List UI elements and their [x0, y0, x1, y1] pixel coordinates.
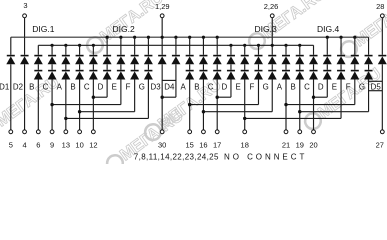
svg-text:D: D [318, 82, 324, 91]
svg-text:21: 21 [282, 140, 290, 149]
svg-text:10: 10 [75, 140, 83, 149]
svg-text:D2: D2 [13, 82, 23, 91]
svg-text:A: A [180, 82, 186, 91]
svg-text:4: 4 [22, 140, 26, 149]
svg-text:B: B [194, 82, 199, 91]
svg-text:F: F [126, 82, 131, 91]
svg-text:17: 17 [213, 140, 221, 149]
svg-text:19: 19 [296, 140, 304, 149]
svg-text:C: C [304, 82, 310, 91]
svg-text:DIG.2: DIG.2 [113, 24, 135, 34]
svg-text:27: 27 [376, 140, 384, 149]
svg-text:30: 30 [158, 140, 166, 149]
svg-text:E: E [332, 82, 337, 91]
svg-text:9: 9 [50, 140, 54, 149]
svg-text:28: 28 [376, 2, 384, 11]
svg-text:12: 12 [89, 140, 97, 149]
svg-text:DIG.3: DIG.3 [255, 24, 277, 34]
svg-text:D1: D1 [0, 82, 9, 91]
svg-text:5: 5 [9, 140, 13, 149]
svg-text:E: E [235, 82, 240, 91]
svg-text:C: C [43, 82, 49, 91]
svg-text:E: E [112, 82, 117, 91]
svg-text:3: 3 [23, 1, 27, 10]
svg-text:C: C [208, 82, 214, 91]
svg-text:D5: D5 [371, 82, 382, 91]
svg-text:D3: D3 [151, 82, 162, 91]
svg-text:B: B [291, 82, 296, 91]
svg-text:C: C [84, 82, 90, 91]
svg-text:F: F [249, 82, 254, 91]
svg-text:D: D [222, 82, 228, 91]
svg-text:G: G [263, 82, 269, 91]
svg-text:1,29: 1,29 [155, 2, 170, 11]
svg-text:D4: D4 [164, 82, 175, 91]
svg-text:B: B [29, 82, 34, 91]
svg-text:A: A [277, 82, 283, 91]
svg-text:6: 6 [36, 140, 40, 149]
svg-text:G: G [359, 82, 365, 91]
svg-text:G: G [139, 82, 145, 91]
svg-text:B: B [70, 82, 75, 91]
svg-text:F: F [346, 82, 351, 91]
svg-text:DIG.1: DIG.1 [32, 24, 54, 34]
svg-text:2,26: 2,26 [264, 2, 279, 11]
svg-text:20: 20 [309, 140, 317, 149]
svg-text:7,8,11,14,22,23,24,25 NO CONNE: 7,8,11,14,22,23,24,25 NO CONNECT [134, 152, 307, 161]
svg-text:16: 16 [199, 140, 207, 149]
svg-text:A: A [57, 82, 63, 91]
svg-text:18: 18 [241, 140, 249, 149]
svg-text:DIG.4: DIG.4 [317, 24, 339, 34]
svg-text:D: D [98, 82, 104, 91]
svg-text:15: 15 [186, 140, 194, 149]
svg-text:13: 13 [62, 140, 70, 149]
